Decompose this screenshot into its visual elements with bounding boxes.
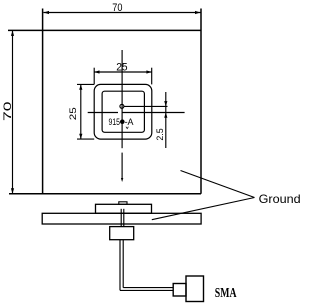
svg-text:70: 70 (112, 2, 122, 14)
svg-text:SMA: SMA (215, 286, 237, 301)
svg-text:Ground: Ground (259, 192, 301, 206)
svg-text:25: 25 (116, 62, 127, 74)
svg-text:915: 915 (109, 117, 121, 128)
svg-text:-A: -A (125, 117, 135, 128)
svg-text:2.5: 2.5 (155, 128, 165, 140)
svg-text:25: 25 (68, 107, 78, 120)
svg-text:70: 70 (2, 102, 14, 122)
